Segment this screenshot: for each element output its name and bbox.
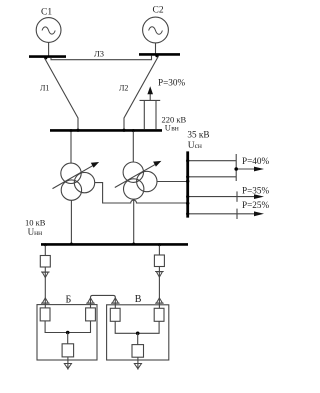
cell B2 xyxy=(86,308,96,321)
node block B xyxy=(66,331,70,335)
node feeder1b bus35 xyxy=(186,175,189,178)
tick P25 xyxy=(236,209,238,219)
block B (outer box) xyxy=(37,305,97,360)
wire T2 LV winding to bus 10 xyxy=(133,199,135,243)
bus G2 (generator 2 busbar) xyxy=(139,53,180,56)
cable end arrow down (right) xyxy=(155,272,164,278)
svg-text:В: В xyxy=(135,294,142,305)
wire line L3 xyxy=(51,56,152,60)
cable end arrow down (left) xyxy=(41,272,50,278)
wire to ground (block V) xyxy=(137,357,139,369)
load feeder P=35% xyxy=(189,196,257,198)
block V (outer box) xyxy=(107,305,169,360)
bus 35 kV (vertical) xyxy=(186,151,189,217)
ground (block B) xyxy=(64,364,71,369)
wire bus10 to reactor R1 xyxy=(44,246,46,256)
svg-text:U: U xyxy=(165,122,171,132)
node T1-bus220 xyxy=(70,129,73,132)
transformer T1 (three-winding, with tap arrow) xyxy=(53,163,97,200)
svg-text:сн: сн xyxy=(195,141,202,150)
node at bus G1 xyxy=(44,56,47,59)
wires inside block B xyxy=(45,321,90,333)
cable end arrow up (block B right) xyxy=(86,298,95,303)
arrowhead P=40% xyxy=(254,167,264,172)
node L1-bus220 xyxy=(76,129,79,132)
bus G1 (generator 1 busbar) xyxy=(29,55,66,58)
cell B3 xyxy=(62,344,74,357)
wire to cell V3 xyxy=(137,333,139,344)
node L2-bus220 xyxy=(122,129,125,132)
cable end arrow up (block V right) xyxy=(155,298,164,303)
cell V1 xyxy=(110,308,120,321)
wire to ground (block B) xyxy=(67,357,69,370)
reactor R1 xyxy=(40,256,50,268)
cell B1 xyxy=(40,308,50,321)
load feeder pair P=40% xyxy=(189,154,258,181)
svg-text:P=25%: P=25% xyxy=(242,200,269,210)
svg-text:P=30%: P=30% xyxy=(158,77,185,87)
reactor R2 xyxy=(154,255,164,267)
svg-text:Л3: Л3 xyxy=(94,49,104,59)
load feeder P=30% on bus 220 xyxy=(140,92,161,129)
svg-text:вн: вн xyxy=(171,123,179,132)
arrowhead T1 tap xyxy=(91,162,99,168)
node T2-bus220 xyxy=(132,129,135,132)
generator C2 xyxy=(143,17,169,54)
node at bus G2 xyxy=(155,54,158,57)
wire T1 MV winding to bus 35 (with hop over T2 LV wire) xyxy=(95,183,187,203)
cable end arrow up (block B left) xyxy=(41,298,50,303)
wire to cell B3 xyxy=(67,333,69,344)
wire line L1 xyxy=(45,58,79,130)
svg-text:Л2: Л2 xyxy=(119,83,128,92)
svg-text:P=35%: P=35% xyxy=(242,186,269,196)
node T1MV-bus35 xyxy=(186,202,189,205)
node block V xyxy=(136,332,140,336)
wires inside block V xyxy=(115,321,159,333)
svg-text:C1: C1 xyxy=(41,8,52,18)
transformer T2 (three-winding, with tap arrow) xyxy=(115,162,159,199)
load feeder P=25% xyxy=(189,213,257,215)
wire bus220 to T1 xyxy=(70,132,72,164)
cable end arrow up (block V left) xyxy=(111,298,120,303)
wire line L2 xyxy=(124,56,159,130)
arrowhead P=30% xyxy=(147,86,153,94)
node T2MV-bus35 xyxy=(186,180,189,183)
svg-text:P=40%: P=40% xyxy=(242,156,269,166)
tie wire between block B and block V xyxy=(91,295,116,308)
arrowhead P=25% xyxy=(254,211,264,216)
node T2LV-bus10 xyxy=(132,243,135,246)
cell V2 xyxy=(154,308,164,321)
cell V3 xyxy=(132,345,144,358)
arrowhead P=35% xyxy=(254,194,264,199)
tick P35 xyxy=(236,191,238,201)
node feeder3 bus35 xyxy=(186,212,189,215)
bus 220 kV xyxy=(50,129,162,132)
node T1LV-bus10 xyxy=(70,243,73,246)
svg-text:C2: C2 xyxy=(153,6,164,16)
wire T2 MV winding to bus 35 xyxy=(157,181,187,183)
wire to block V (right feeder) xyxy=(158,267,160,309)
svg-text:нн: нн xyxy=(34,228,42,237)
wire T1 LV winding to bus 10 xyxy=(70,200,72,243)
arrowhead T2 tap xyxy=(153,161,161,167)
svg-text:Л1: Л1 xyxy=(40,83,49,92)
wire bus10 to reactor R2 xyxy=(158,246,160,256)
svg-text:35 кВ: 35 кВ xyxy=(187,129,209,139)
node reactor1-bus10 xyxy=(44,243,47,246)
ground (block V) xyxy=(134,364,141,369)
wire bus220 to T2 xyxy=(132,132,134,163)
node feeder1 bus35 xyxy=(186,159,189,162)
bus 10 kV xyxy=(41,243,188,246)
node feeder2 bus35 xyxy=(186,195,189,198)
node reactor2-bus10 xyxy=(158,243,161,246)
node tie P40 xyxy=(234,167,238,171)
svg-text:10 кВ: 10 кВ xyxy=(25,217,46,227)
svg-text:Б: Б xyxy=(66,294,72,305)
wire to block B (left feeder) xyxy=(44,267,46,308)
generator C1 xyxy=(36,18,61,56)
